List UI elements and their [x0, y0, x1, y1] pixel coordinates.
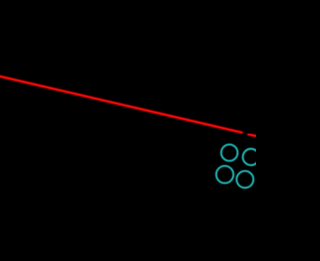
cyan circle top-right (clipped at edge) [243, 149, 259, 165]
red line (end dash) [248, 134, 258, 136]
cyan circle bottom-right [237, 171, 254, 188]
cyan circle top-left [221, 145, 237, 161]
cyan circle bottom-left [216, 166, 233, 183]
red line (main solid segment) [0, 76, 242, 133]
